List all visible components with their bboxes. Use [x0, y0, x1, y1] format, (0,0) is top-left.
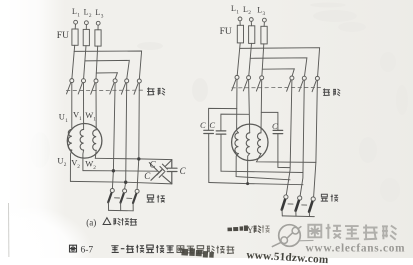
junction contact6-W2 — [137, 157, 140, 160]
svg-text:2: 2 — [248, 10, 251, 16]
terminal L2 (left) — [85, 21, 89, 25]
motor winding W (left) — [93, 130, 97, 151]
terminal L3 (left) — [96, 21, 100, 25]
start switch linkage dashes (left) — [115, 197, 132, 200]
start switch linkage dashes (right) — [288, 204, 307, 205]
wire U2 lead (right) — [236, 154, 290, 180]
motor winding U (left) — [68, 129, 71, 150]
motor M stator circle (right) — [232, 124, 268, 160]
svg-text:www.elecfans.com: www.elecfans.com — [306, 243, 406, 255]
svg-text:1: 1 — [65, 118, 68, 124]
wire contact1 to motor U1 (right) — [237, 79, 239, 132]
svg-text:L: L — [72, 7, 77, 16]
wire contact6 down to start switch — [137, 83, 139, 189]
svg-text:1: 1 — [79, 116, 82, 122]
capacitor CA plates — [204, 130, 214, 133]
svg-text:3: 3 — [101, 14, 104, 20]
start switch pole 1 (left) — [108, 189, 114, 203]
white bottom-left corner fade — [0, 204, 93, 265]
svg-text:L: L — [243, 5, 248, 14]
label start (right) dong — [331, 194, 339, 201]
wire pole2 to bar — [120, 203, 122, 211]
capacitor C vertical right leg plates — [167, 160, 177, 184]
run contactor contact 1 (left) — [67, 79, 74, 94]
net capacitor CB to pole2 — [221, 171, 303, 172]
wire contact3 to motor W1 — [95, 83, 97, 130]
watermark dianzifashaoyou — [308, 224, 396, 240]
svg-text:FU: FU — [220, 27, 232, 37]
wire branch L2 to contact 5 — [85, 60, 129, 78]
svg-text:6-7: 6-7 — [81, 245, 94, 255]
page edge line bottom-left — [8, 203, 10, 257]
fuse FU pole 2 (right) — [249, 26, 255, 44]
right-side scan tint — [230, 0, 413, 258]
label run (right) yun — [323, 88, 330, 95]
caption (b) smudged blobs — [227, 225, 248, 231]
svg-text:FU: FU — [57, 31, 69, 41]
svg-text:W: W — [85, 159, 93, 169]
fuse FU pole 1 (right) — [237, 25, 243, 43]
svg-text:2: 2 — [77, 164, 80, 170]
run contactor contact 6 (right) — [312, 76, 319, 91]
figure caption smudged tail dian-rong-qi-de-jie-fa — [177, 246, 234, 254]
svg-text:L: L — [84, 8, 89, 17]
wire contact4 down to start pole1 (right) — [286, 80, 292, 195]
wire pole3 to bar — [132, 203, 134, 211]
wire contact4 down to start switch — [112, 83, 115, 189]
svg-text:Y: Y — [247, 226, 254, 236]
watermark stamp circle — [272, 225, 302, 247]
wire contact5 down to start switch — [125, 83, 127, 189]
wire V2 lead (right) — [248, 154, 250, 184]
run contactor contact 4 (right) — [287, 76, 294, 91]
start switch pole 1 (right) — [282, 195, 288, 210]
wire fuse3 to contact3 (right) — [262, 44, 264, 76]
junction V2-CA net — [246, 182, 249, 185]
svg-text:C: C — [150, 160, 157, 170]
star point bar (right) — [282, 215, 314, 218]
run contactor contact 2 (left) — [78, 79, 85, 94]
figure caption xing-san-jiao-qi-dong-shi — [111, 246, 118, 253]
svg-text:2: 2 — [93, 165, 96, 171]
label run (right) xing — [333, 89, 340, 96]
start switch pole 2 (left) — [121, 189, 127, 203]
label run (left) xing — [158, 88, 165, 95]
svg-text:W: W — [85, 110, 93, 120]
wire branch L3 to contact 4 (right) — [262, 69, 294, 76]
wire branch L1 to contact 6 — [74, 51, 141, 78]
wire contact5 down to start pole2 (right) — [300, 80, 304, 196]
svg-text:C: C — [180, 166, 187, 176]
svg-text:C: C — [200, 120, 206, 130]
svg-text:C: C — [209, 120, 215, 130]
star point bar (left) — [109, 209, 134, 211]
wire branch L1 to contact 6 (right) — [240, 48, 320, 77]
wire W2 lead (right) — [257, 154, 316, 163]
label start (left) dong — [157, 195, 165, 203]
run contactor contact 2 (right) — [243, 76, 250, 91]
motor M stator circle (left) — [67, 124, 102, 159]
svg-text:1: 1 — [77, 12, 80, 18]
wire L3 to fuse (right) — [263, 22, 265, 26]
capacitor CB bottom wire — [220, 134, 222, 171]
fuse FU pole 2 (left) — [83, 29, 89, 45]
caption fa — [130, 218, 137, 225]
faint scan blotches — [30, 3, 408, 203]
svg-text:L: L — [95, 8, 100, 17]
motor winding V (right) — [246, 133, 250, 154]
motor winding V (left) — [80, 129, 83, 150]
wire L2 to fuse (right) — [250, 21, 252, 25]
terminal L3 (right) — [263, 18, 267, 22]
wire pole3 to bar (right) — [308, 212, 310, 217]
capacitor CB plates — [216, 131, 226, 134]
dark watermark blob cluster over caption — [181, 248, 214, 258]
net V2 horizontal to capacitor X — [83, 170, 157, 173]
capacitor CR plates — [273, 130, 283, 133]
run contactor contact 3 (right) — [256, 76, 263, 91]
label run (left) yun — [147, 87, 154, 95]
svg-text:2: 2 — [64, 162, 67, 168]
wire fuse3 to contact3 — [96, 46, 98, 79]
svg-text:1: 1 — [93, 117, 96, 123]
wire L2 to fuse — [85, 25, 87, 30]
svg-text:C: C — [144, 171, 151, 181]
svg-text:(a): (a) — [86, 218, 96, 228]
wire L1 to fuse — [74, 24, 76, 29]
wire U2 lead down — [70, 150, 71, 181]
fuse FU pole 1 (left) — [72, 29, 78, 45]
motor winding W (right) — [258, 133, 261, 154]
net U2 horizontal to capacitor box bottom — [71, 181, 172, 184]
wire contact2 to motor V1 — [83, 83, 85, 130]
wire branch L2 to contact 5 (right) — [250, 58, 307, 76]
wire fuse1 to contact1 (right) — [237, 43, 240, 76]
start switch pole 3 (right) — [309, 197, 315, 212]
capacitor CA top wire to phase1 — [209, 108, 237, 130]
mechanical linkage dashed (right run) — [232, 86, 321, 88]
svg-text:L: L — [231, 4, 236, 13]
run contactor contact 3 (left) — [91, 79, 98, 94]
wire L3 to fuse — [97, 25, 99, 30]
wire fuse2 to contact2 — [84, 46, 86, 79]
svg-text:1: 1 — [236, 10, 239, 16]
terminal L1 (right) — [238, 17, 242, 21]
wire V2 lead down — [82, 150, 85, 171]
capacitor C diagonal B plates — [149, 163, 172, 184]
wire contact1 to motor U1 — [71, 83, 73, 130]
wire fuse2 to contact2 (right) — [249, 43, 252, 75]
svg-text:U: U — [59, 112, 65, 122]
start switch pole 2 (right) — [296, 196, 302, 211]
fuse FU pole 3 (left) — [95, 30, 101, 46]
run contactor contact 6 (left) — [134, 79, 141, 94]
fuse FU pole 3 (right) — [261, 26, 267, 44]
svg-text:3: 3 — [263, 11, 266, 17]
wire pole1 to bar — [107, 202, 109, 210]
mechanical linkage dashed (left run) — [67, 89, 144, 91]
svg-text:L: L — [257, 5, 262, 14]
wire pole1 to bar (right) — [281, 210, 283, 216]
run contactor contact 5 (left) — [121, 79, 128, 94]
net capacitor CA to V2 to pole2 — [209, 183, 303, 185]
terminal L1 (left) — [74, 20, 78, 24]
wire contact6 down to start pole3 (right) — [314, 80, 318, 197]
run contactor contact 5 (right) — [299, 76, 306, 91]
wire fuse1 to contact1 — [72, 45, 75, 78]
wire W2 lead down — [94, 150, 97, 158]
caption (b) jie faint — [262, 225, 270, 233]
wire branch L3 to contact 4 — [96, 73, 117, 79]
junction contact4-V2 — [112, 169, 115, 172]
capacitor CR top wire to phase3 — [261, 112, 278, 130]
run contactor contact 1 (right) — [232, 75, 239, 90]
svg-text:2: 2 — [89, 13, 92, 19]
motor winding U (right) — [235, 133, 238, 154]
capacitor C diagonal A plates — [151, 160, 172, 180]
caption delta triangle — [103, 218, 111, 225]
capacitor CB top wire to phase2 — [221, 114, 249, 131]
white left margin fade — [7, 0, 65, 258]
svg-text:C: C — [272, 121, 278, 131]
wire contact2 to motor V1 (right) — [249, 80, 250, 133]
caption (b) xing — [254, 226, 261, 233]
net W2 horizontal to capacitor box — [95, 158, 172, 159]
small gray dash above stamp — [299, 239, 314, 241]
wire L1 to fuse (right) — [239, 21, 241, 26]
label start (right) qi — [321, 194, 328, 201]
capacitor CR bottom wire to pole1 — [278, 134, 290, 168]
caption xing — [113, 218, 120, 225]
caption jie — [121, 218, 129, 225]
wire contact3 to motor W1 (right) — [260, 80, 263, 133]
terminal L2 (right) — [249, 18, 253, 22]
start switch pole 3 (left) — [133, 189, 139, 203]
junction contact5-U2 — [124, 181, 127, 184]
label start (left) qi — [147, 195, 155, 202]
capacitor CA bottom wire — [208, 134, 210, 183]
figure caption tu — [70, 245, 77, 252]
run contactor contact 4 (left) — [110, 79, 117, 94]
wire pole2 to bar (right) — [295, 211, 297, 216]
svg-text:U: U — [57, 155, 63, 165]
